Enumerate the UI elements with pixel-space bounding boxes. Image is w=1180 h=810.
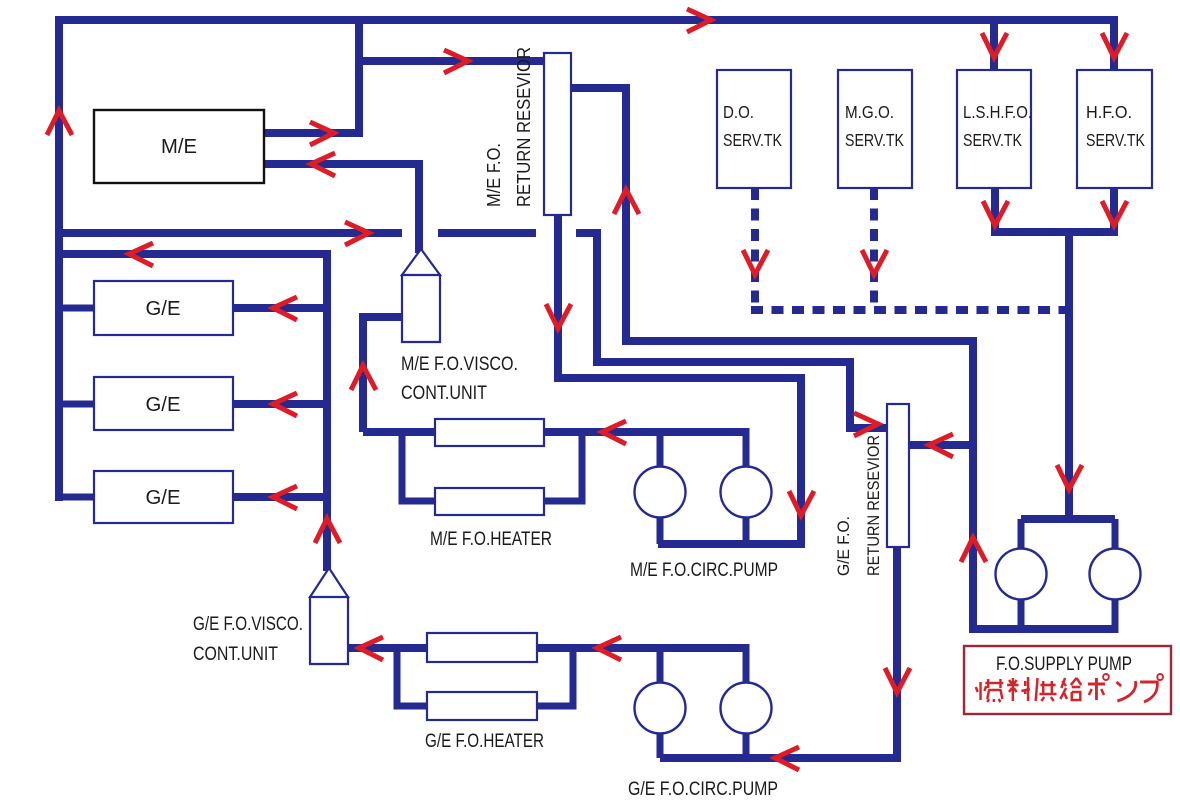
main engine M/E <box>94 110 264 183</box>
arrow right to M/E resevior <box>444 50 468 73</box>
arrow up x973 riser <box>961 538 986 563</box>
arrow down H.F.O. outlet <box>1102 201 1127 226</box>
M/E F.O. visco control unit <box>402 249 440 342</box>
svg-text:G/E F.O.VISCO.: G/E F.O.VISCO. <box>193 614 303 635</box>
svg-text:G/E F.O.: G/E F.O. <box>834 516 853 576</box>
svg-text:M/E F.O.: M/E F.O. <box>483 143 504 207</box>
arrow left G/E pump suction manifold <box>775 747 799 770</box>
label JP 燃料供給ポンプ (drawn strokes) <box>976 674 1163 702</box>
pipe: supply pump 2 bottom stub <box>1112 598 1119 633</box>
svg-text:G/E F.O.HEATER: G/E F.O.HEATER <box>425 730 544 752</box>
pipe: M/E upper outlet <box>264 129 363 137</box>
pipe: L.S.H.F.O. tank fill drop <box>990 20 998 71</box>
pipe: top return header <box>57 16 1118 24</box>
pipe: G/E heater lower loop right <box>536 644 573 706</box>
pipe: H.F.O. tank fill drop <box>1110 20 1118 71</box>
arrow down L.S.H.F.O. outlet <box>983 201 1008 226</box>
F.O. supply pump label frame <box>964 646 1171 714</box>
pipe: diesel transfer line (dashed) <box>751 306 1065 314</box>
pipe: G/E resevior right inlet <box>908 441 973 449</box>
G/E F.O. return resevior vessel <box>887 404 909 547</box>
generator engine G/E 1 <box>94 281 233 335</box>
M/E F.O. circ pump 1 <box>635 467 686 518</box>
svg-text:RETURN RESEVIOR: RETURN RESEVIOR <box>513 47 534 207</box>
svg-text:M/E F.O.HEATER: M/E F.O.HEATER <box>430 528 552 550</box>
M/E F.O. heater 2 <box>435 488 544 515</box>
svg-text:CONT.UNIT: CONT.UNIT <box>193 644 278 665</box>
tank L.S.H.F.O. SERV.TK <box>957 70 1031 188</box>
pipe: G/E manifold line y254 <box>55 250 327 258</box>
pipe: H.F.O. tank outlet <box>1110 187 1118 236</box>
pipe: M/E circ pump 2 top stub <box>743 428 750 467</box>
arrow down x801 drop <box>789 491 814 516</box>
arrow up G/E feed riser <box>315 519 340 544</box>
pipe: supply pump 2 top stub <box>1112 519 1119 550</box>
arrow left G/E resevior right inlet <box>929 434 953 457</box>
pipe: G/E circ pump 1 bottom stub <box>657 733 664 758</box>
pipe: supply pump inlet manifold <box>1021 515 1115 523</box>
arrow up M/E visco riser <box>351 366 376 391</box>
svg-text:SERV.TK: SERV.TK <box>1086 130 1145 150</box>
arrow down L.S.H.F.O. fill <box>982 33 1007 58</box>
arrow down G/E resevior bottom <box>885 668 910 693</box>
M/E F.O. return resevior vessel <box>544 53 571 215</box>
pipe: M/E circ pump suction manifold <box>658 540 805 548</box>
pipe: M/E heater lower loop left <box>402 428 435 501</box>
pipe: supply pump 1 bottom stub <box>1018 598 1025 629</box>
svg-text:G/E: G/E <box>146 298 181 320</box>
arrow left G/E 3 feed <box>273 486 297 509</box>
pipe: G/E circ pump suction manifold <box>660 754 901 762</box>
pipe: L.S.H.F.O. tank outlet <box>991 187 999 236</box>
arrow up riser x623 <box>614 190 639 215</box>
pipe: supply feed drop x1069 <box>1065 232 1073 523</box>
svg-text:M/E: M/E <box>161 136 197 158</box>
svg-text:D.O.: D.O. <box>723 102 754 122</box>
arrow left G/E pump discharge <box>597 637 621 660</box>
pipe: M/E heater lower loop right <box>544 428 582 501</box>
pipe: main cross line y233 seg2 <box>438 229 536 237</box>
pipe: M/E return resevior bottom outlet <box>558 215 801 544</box>
M/E F.O. circ pump 2 <box>721 467 772 518</box>
pipe: M/E lower return into engine <box>264 164 419 253</box>
arrow down D.O. outlet <box>743 250 768 275</box>
svg-text:F.O.SUPPLY PUMP: F.O.SUPPLY PUMP <box>996 654 1132 675</box>
F.O. supply pump 2 <box>1090 549 1141 600</box>
pipe: supply pump discharge manifold <box>969 625 1116 633</box>
arrow left G/E 1 feed <box>273 297 297 320</box>
arrow left M/E lower return <box>311 153 335 176</box>
pipe: G/E 2 right feed <box>233 400 327 408</box>
pipe: G/E resevior left inlet <box>846 424 888 432</box>
pipe: G/E 2 left stub <box>55 401 95 408</box>
pipe: G/E 1 right feed <box>233 304 327 312</box>
svg-text:G/E: G/E <box>146 487 181 509</box>
pipe: riser x623 from resevior outlet <box>622 84 630 341</box>
svg-text:RETURN RESEVIOR: RETURN RESEVIOR <box>864 435 883 576</box>
F.O. supply pump 1 <box>996 549 1047 600</box>
pipe: branch to M/E return resevior <box>359 57 545 65</box>
pipe: M/E circ pump discharge line <box>544 428 746 436</box>
arrow left G/E visco inlet <box>359 637 383 660</box>
svg-text:SERV.TK: SERV.TK <box>963 130 1022 150</box>
pipe: G/E 3 left stub <box>55 494 95 501</box>
svg-text:M.G.O.: M.G.O. <box>845 102 894 122</box>
svg-text:L.S.H.F.O.: L.S.H.F.O. <box>963 102 1032 122</box>
arrow right main cross line <box>345 222 369 245</box>
G/E F.O. heater 2 <box>427 692 537 720</box>
arrow right G/E resevior left inlet <box>854 413 878 436</box>
pipe: left riser <box>55 16 63 501</box>
pipe: M.G.O. tank outlet (dashed) <box>870 188 878 306</box>
pipe: G/E circ pump discharge line <box>536 644 746 652</box>
pipe: G/E 3 right feed <box>233 493 327 501</box>
pipe: G/E visco right port line <box>347 644 427 652</box>
pipe: M/E circ pump 2 bottom stub <box>743 517 750 544</box>
pipe: M/E return resevior right outlet <box>570 84 626 92</box>
svg-text:H.F.O.: H.F.O. <box>1086 102 1132 122</box>
arrow left G/E manifold line <box>129 243 153 266</box>
arrow up on left riser <box>47 111 72 136</box>
arrow down M.G.O. outlet <box>862 250 887 275</box>
pipe: M/E outlet riser to header <box>355 16 363 133</box>
pipe: tank outlet junction line <box>991 228 1118 236</box>
pipe: G/E feed riser x327 <box>323 250 331 571</box>
pipe: M/E visco riser <box>363 317 404 432</box>
generator engine G/E 2 <box>94 377 233 430</box>
arrow down H.F.O. fill <box>1102 33 1127 58</box>
pipe: M/E circ pump 1 top stub <box>657 432 664 467</box>
arrow down supply feed <box>1057 465 1082 490</box>
svg-text:G/E F.O.CIRC.PUMP: G/E F.O.CIRC.PUMP <box>628 778 778 800</box>
pipe: G/E 1 left stub <box>55 305 95 312</box>
pipe: M/E circ pump 1 bottom stub <box>657 517 664 544</box>
tank H.F.O. SERV.TK <box>1077 70 1152 188</box>
G/E F.O. circ pump 2 <box>721 683 772 734</box>
arrow down resevior bottom outlet <box>546 304 571 329</box>
tank D.O. SERV.TK <box>717 70 791 188</box>
pipe: supply pump 1 top stub <box>1018 519 1025 550</box>
pipe: G/E heater lower loop left <box>397 644 428 706</box>
pipe: M/E heater feed line <box>363 428 435 436</box>
pipe: D.O. tank outlet (dashed) <box>751 188 759 306</box>
arrow right top header <box>687 9 711 32</box>
M/E F.O. heater 1 <box>435 419 544 446</box>
pipe: main cross line y233 seg1 <box>55 229 402 237</box>
svg-text:M/E F.O.VISCO.: M/E F.O.VISCO. <box>401 354 518 375</box>
tank M.G.O. SERV.TK <box>838 70 912 188</box>
G/E F.O. visco control unit <box>310 568 348 664</box>
pipe: main cross line y233 seg3 to G/E resevior <box>576 233 850 428</box>
G/E F.O. circ pump 1 <box>635 683 686 734</box>
arrow left G/E 2 feed <box>273 393 297 416</box>
svg-text:G/E: G/E <box>146 394 181 416</box>
pipe: G/E circ pump 2 top stub <box>743 644 750 683</box>
arrow right M/E upper outlet <box>310 122 334 145</box>
svg-text:M/E F.O.CIRC.PUMP: M/E F.O.CIRC.PUMP <box>630 559 778 581</box>
arrow left M/E pump discharge <box>602 421 626 444</box>
svg-text:CONT.UNIT: CONT.UNIT <box>401 383 487 404</box>
svg-text:SERV.TK: SERV.TK <box>723 130 782 150</box>
generator engine G/E 3 <box>94 471 233 523</box>
pipe: G/E resevior bottom outlet <box>893 547 901 762</box>
pipe: G/E circ pump 1 top stub <box>657 648 664 683</box>
svg-text:SERV.TK: SERV.TK <box>845 130 904 150</box>
pipe: G/E circ pump 2 bottom stub <box>743 733 750 758</box>
pipe: supply line y341 <box>622 341 973 629</box>
G/E F.O. heater 1 <box>427 633 537 662</box>
